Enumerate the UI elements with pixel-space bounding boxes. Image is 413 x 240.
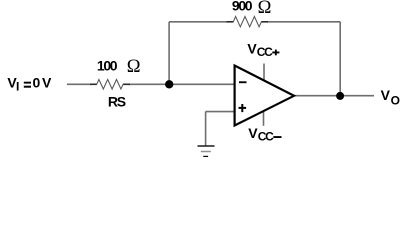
svg-text:CC: CC bbox=[257, 45, 273, 59]
svg-text:V: V bbox=[381, 87, 391, 103]
svg-text:CC: CC bbox=[258, 130, 274, 144]
svg-text:RS: RS bbox=[108, 93, 126, 109]
svg-text:900: 900 bbox=[232, 0, 253, 14]
svg-text:Ω: Ω bbox=[127, 57, 141, 77]
svg-text:O: O bbox=[391, 93, 400, 107]
svg-text:V: V bbox=[42, 75, 52, 91]
svg-text:Ω: Ω bbox=[258, 0, 272, 18]
svg-text:V: V bbox=[248, 125, 258, 141]
svg-text:I: I bbox=[16, 80, 19, 94]
svg-text:0: 0 bbox=[33, 75, 41, 91]
svg-text:100: 100 bbox=[97, 58, 118, 74]
